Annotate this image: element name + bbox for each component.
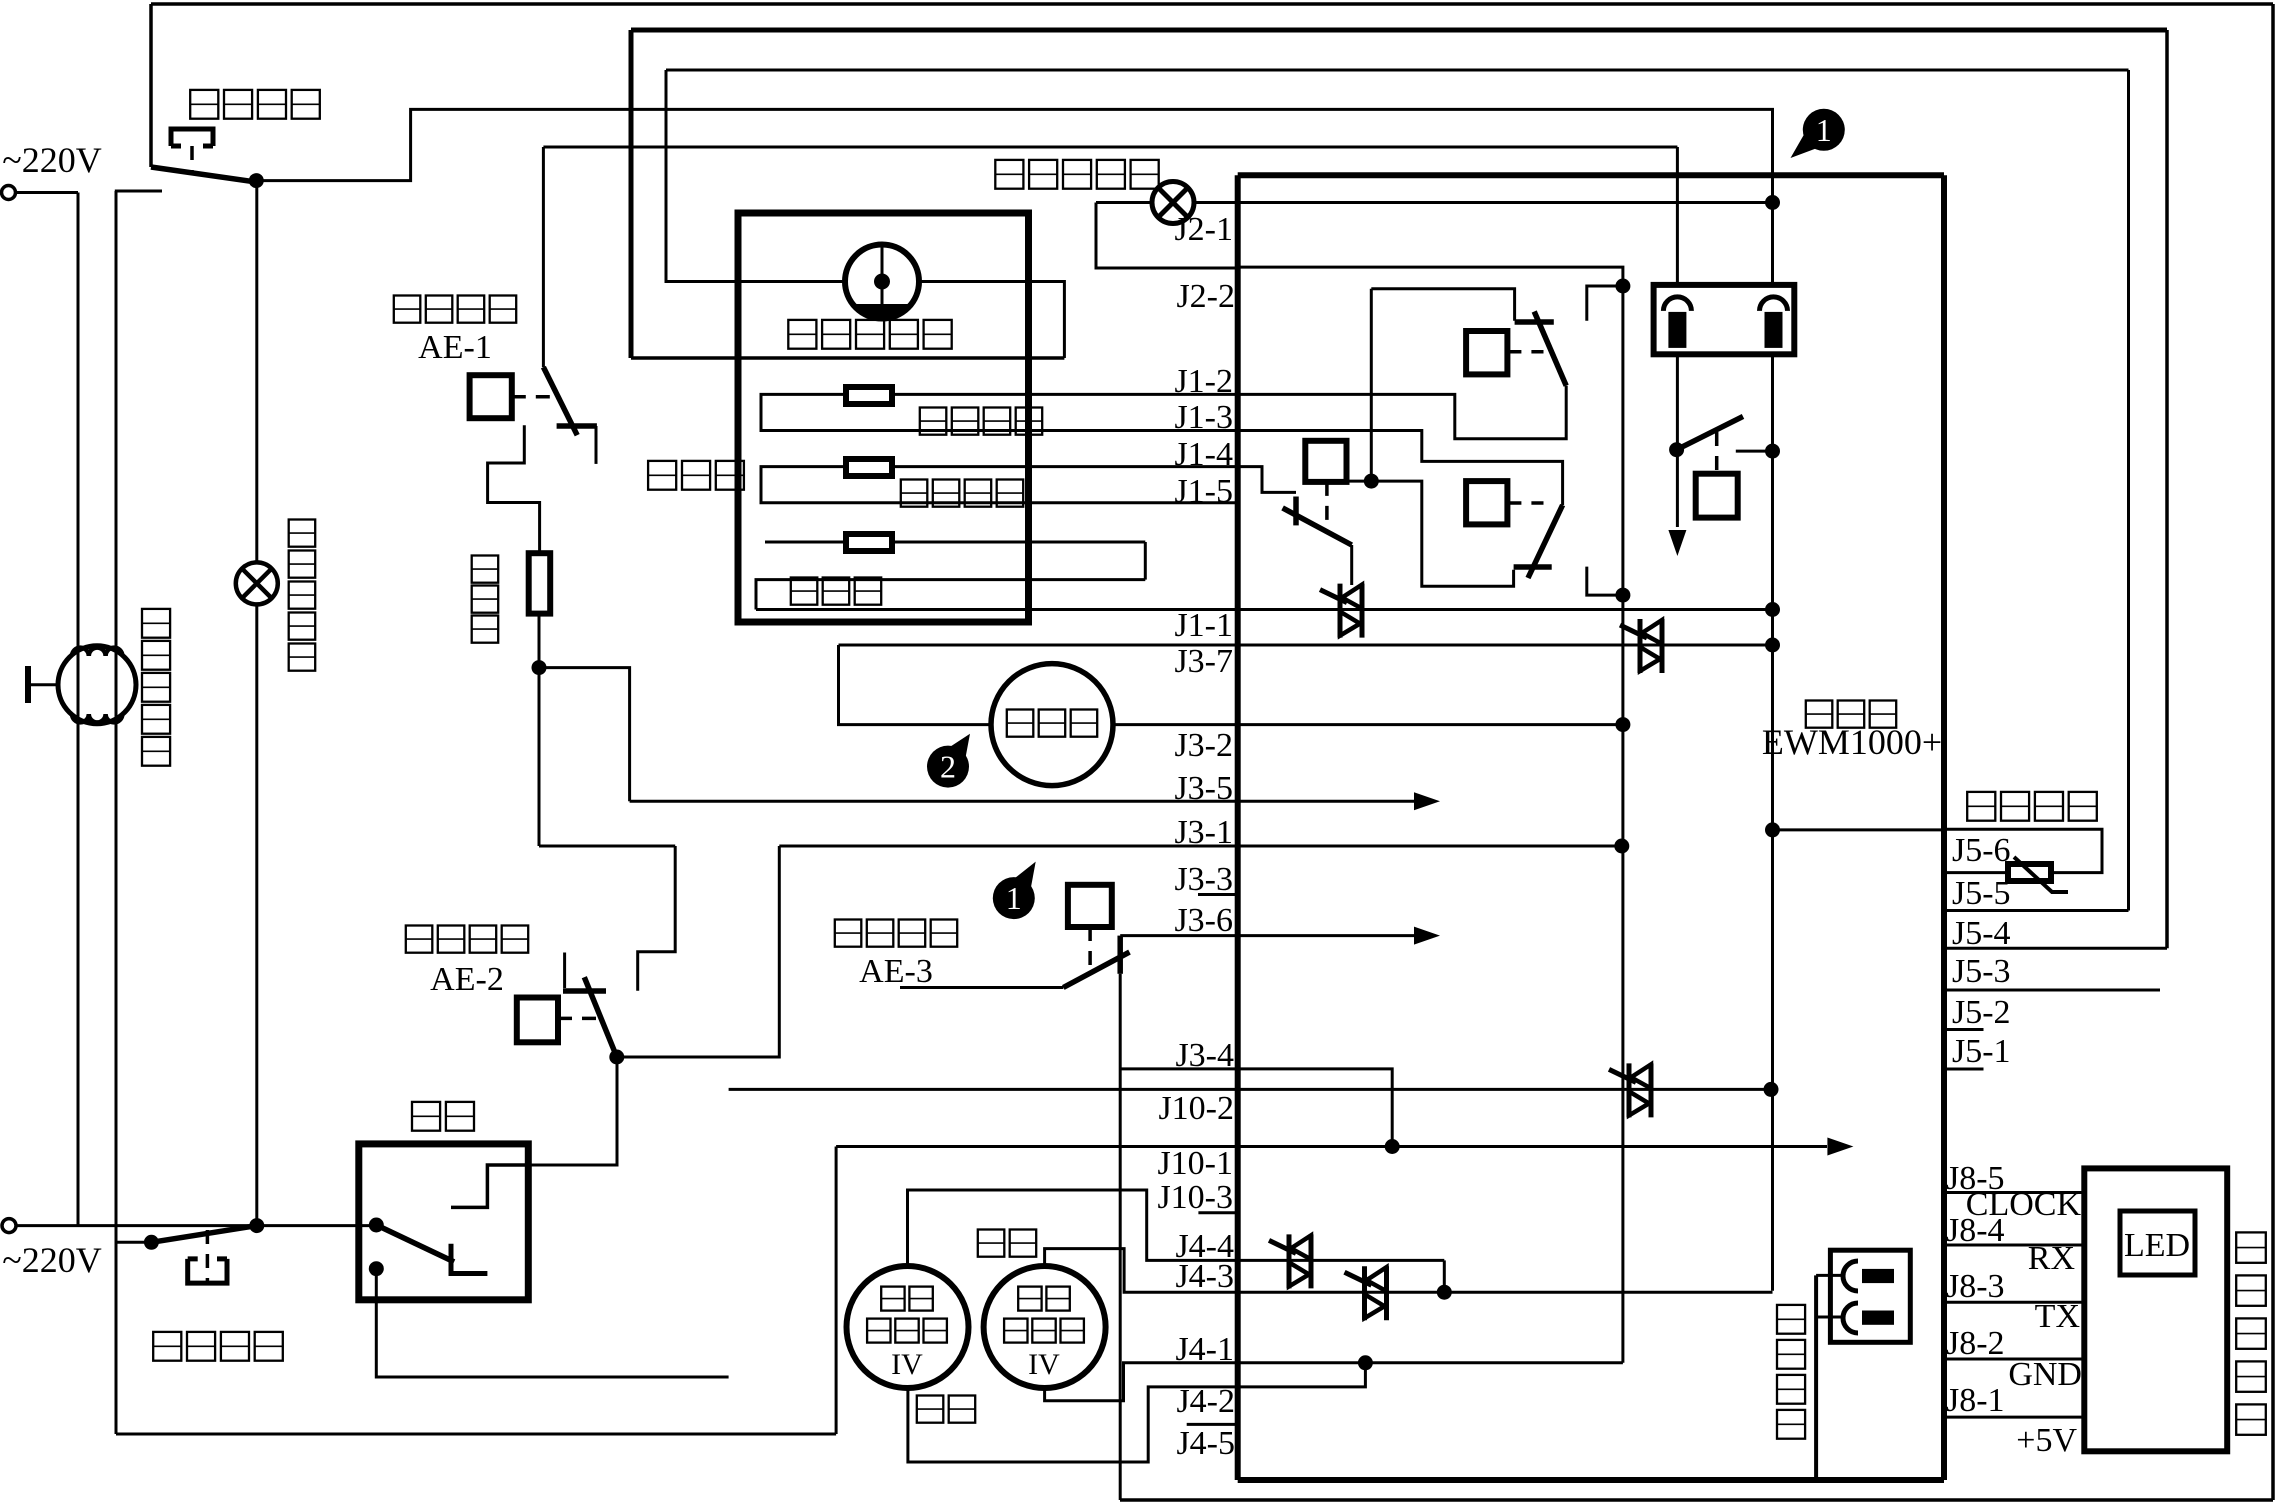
motor box 电动机 <box>738 213 1029 622</box>
svg-text:J8-2: J8-2 <box>1946 1325 2005 1362</box>
svg-text:AE-2: AE-2 <box>430 961 504 998</box>
door lock contact L <box>451 1244 487 1274</box>
label 定子绕组 <box>901 480 928 507</box>
wire J3-7 line <box>839 644 1773 647</box>
transformer right winding <box>1760 297 1788 311</box>
wire third row to thermal protector <box>1144 542 1147 580</box>
wire second top rail <box>543 146 1677 149</box>
wire main valve top to J4-4 <box>908 1190 1445 1266</box>
svg-text:J10-1: J10-1 <box>1157 1145 1233 1182</box>
wire left winding output with arrow <box>1676 354 1679 527</box>
svg-text:AE-3: AE-3 <box>859 953 933 990</box>
wire transformer bus x=1773 vertical <box>1771 354 1774 1290</box>
svg-text:IV: IV <box>1028 1348 1060 1381</box>
power filter ground lead <box>28 683 58 686</box>
memory coil 1 bar <box>1862 1269 1894 1283</box>
main control board top edge <box>1238 172 1944 178</box>
junction dot lamp bus to N wire <box>249 1218 264 1233</box>
wire J3-7 down to pump <box>839 645 992 725</box>
svg-text:J1-2: J1-2 <box>1174 363 1233 400</box>
wire J10-1 riser from bottom rail <box>835 1147 838 1435</box>
wire J2-2 inside board <box>1238 267 1623 286</box>
svg-text:J8-1: J8-1 <box>1946 1382 2005 1419</box>
wire outer border left segment to power switch <box>149 4 153 167</box>
memory coil 1 arc <box>1843 1261 1858 1291</box>
relay K1 coil square <box>1466 331 1507 374</box>
label 操作电脑板 vertical <box>2236 1232 2266 1262</box>
wire J1-3 to K2 arm <box>1238 431 1563 506</box>
wire J10-2 line <box>729 1088 1771 1091</box>
wire door lock to AE-2 pivot <box>528 1057 617 1165</box>
water level switch AE-2 crossbar contact <box>563 988 606 994</box>
svg-text:J4-1: J4-1 <box>1175 1331 1234 1368</box>
memory coil 2 arc <box>1843 1303 1858 1333</box>
relay K2 crossbar contact <box>1514 564 1552 570</box>
svg-text:J10-3: J10-3 <box>1157 1179 1233 1216</box>
water level switch AE-2 arm <box>584 977 617 1057</box>
wire J8 row line y=1359 <box>1944 1358 2084 1361</box>
water level switch AE-3 coil square <box>1068 885 1112 927</box>
node A junction dot after power switch <box>249 173 264 188</box>
wire thick box right edge to J5-4 <box>2165 30 2169 948</box>
relay K4 arm <box>1677 416 1743 449</box>
water level switch AE-2 pivot dot <box>609 1050 624 1065</box>
label 电源滤波器 vertical <box>142 609 170 638</box>
svg-text:J3-3: J3-3 <box>1174 861 1233 898</box>
relay K2 dashed link <box>1507 501 1543 505</box>
label 加热器 vertical <box>472 556 499 583</box>
stub J4-5 <box>1187 1423 1238 1426</box>
triac V3 on J10-2 <box>1627 1063 1632 1117</box>
water level switch AE-2 NO contact from heater <box>638 846 676 991</box>
water level switch AE-2 coil square <box>517 998 558 1043</box>
power switch S1b link to bus <box>116 1241 151 1244</box>
label 主洗 <box>917 1396 944 1423</box>
relay K1 crossbar contact <box>1515 319 1554 325</box>
junction dot stub at internal bus <box>1615 588 1630 603</box>
power switch S1 moving arm <box>151 167 256 182</box>
wire J5-6 loop with thermistor <box>1944 829 2102 872</box>
power switch S1 label 电源开关 <box>190 90 218 119</box>
svg-text:J1-1: J1-1 <box>1174 607 1233 644</box>
wire tach left lead to top rail <box>666 70 845 282</box>
wire heater bottom <box>538 614 541 846</box>
wire indicator branch vertical x=257 <box>255 181 258 562</box>
triac V1 on J1-1 <box>1338 584 1343 638</box>
door lock internal wire staircase <box>451 1165 528 1207</box>
junction dot J3-7 at transformer bus <box>1765 638 1780 653</box>
inlet valve main wash circle 进水电磁阀IV <box>847 1266 969 1388</box>
wire J8 row line y=1417.1 <box>1944 1416 2084 1419</box>
label 门锁指示灯 <box>995 160 1023 189</box>
svg-text:J2-2: J2-2 <box>1176 278 1235 315</box>
label 转子绕组 <box>920 408 947 435</box>
wire outer border top <box>151 2 2273 6</box>
svg-text:J5-3: J5-3 <box>1952 953 2011 990</box>
junction dot bus to J5-6 <box>1765 822 1780 837</box>
power indicator lamp HL1 电源指示灯 <box>236 562 278 604</box>
wire J5-3 line <box>1944 989 2160 992</box>
relay K4 contact link <box>1736 450 1773 453</box>
power switch S1b arm <box>151 1226 256 1243</box>
stator winding row J1-4/J1-5 hairpin <box>761 467 1238 503</box>
label 感温探头 <box>1967 792 1995 821</box>
svg-text:RX: RX <box>2028 1240 2075 1277</box>
wire thick box top edge <box>631 28 2167 33</box>
relay K3 arm <box>1283 508 1352 545</box>
label 转速发生器 <box>788 320 816 349</box>
svg-text:+5V: +5V <box>2016 1422 2077 1459</box>
svg-text:TX: TX <box>2035 1298 2080 1335</box>
wire prewash valve bottom to J4-1 <box>1045 1363 1623 1401</box>
svg-text:LED: LED <box>2124 1227 2190 1264</box>
LED box <box>2120 1211 2195 1275</box>
svg-text:AE-1: AE-1 <box>418 329 492 366</box>
water level switch AE-3 arm <box>1063 952 1129 987</box>
svg-text:EWM1000+: EWM1000+ <box>1762 722 1942 762</box>
wire thick box bottom edge <box>631 356 1064 360</box>
svg-text:J5-1: J5-1 <box>1952 1033 2011 1070</box>
svg-text:J4-2: J4-2 <box>1176 1383 1235 1420</box>
power filter FL1 top coil <box>72 648 122 656</box>
relay K3 vertical crossbar contact <box>1293 497 1299 526</box>
svg-text:J5-4: J5-4 <box>1952 915 2011 952</box>
third winding row line <box>765 541 1145 544</box>
contact stub near internal bus <box>1587 567 1623 596</box>
water level switch AE-1 dashed link <box>512 395 552 399</box>
wire door lock lower terminal to bottom rail <box>376 1269 728 1377</box>
triac V4 on J4-4 <box>1287 1234 1292 1288</box>
relay K3 dashed link <box>1325 482 1329 530</box>
water level switch AE-3 label <box>835 920 862 947</box>
wire from transformer bus to J5-6 <box>1773 828 1945 831</box>
svg-text:J5-5: J5-5 <box>1952 875 2011 912</box>
junction dot J1-1 at transformer bus <box>1765 602 1780 617</box>
svg-text:J8-4: J8-4 <box>1946 1212 2005 1249</box>
wire main valve bottom to J4-2 <box>908 1363 1366 1462</box>
thermistor RT1 <box>2008 864 2051 881</box>
heater EH1 rect 加热器 <box>529 553 551 613</box>
svg-text:1: 1 <box>1006 880 1022 916</box>
water level switch AE-1 arm <box>543 367 577 435</box>
stator winding resistor R2 <box>846 459 892 476</box>
main control board left edge <box>1235 175 1241 1480</box>
svg-text:J3-1: J3-1 <box>1174 814 1233 851</box>
power switch S1b actuator bracket <box>188 1259 227 1283</box>
junction dot J3-1 at internal bus <box>1614 839 1629 854</box>
rotor winding resistor R1 <box>846 387 892 404</box>
wire J8 row line y=1245 <box>1944 1244 2084 1247</box>
svg-text:2: 2 <box>940 749 956 785</box>
wire AE-3 contact down to bottom border <box>1119 974 1122 1500</box>
door lock indicator lamp HL2 <box>1152 182 1194 224</box>
relay K3 coil square <box>1305 441 1346 482</box>
ground bar <box>25 666 31 703</box>
water level switch AE-1 label <box>394 296 421 323</box>
wire right winding feeder <box>1771 203 1774 286</box>
junction dot J10-2 at transformer bus <box>1764 1082 1779 1097</box>
wire L input to left bus <box>15 191 78 194</box>
wire J3-5 line with arrow <box>630 800 1414 803</box>
wire outer border right <box>2271 4 2275 1500</box>
transformer left winding <box>1663 297 1691 311</box>
wire J3-1 line from AE-2 common to board <box>779 845 1622 848</box>
label 电源开关 bottom <box>153 1332 181 1361</box>
svg-text:J1-4: J1-4 <box>1174 436 1233 473</box>
svg-text:J2-1: J2-1 <box>1174 211 1233 248</box>
junction dot J3-2 at internal bus <box>1615 717 1630 732</box>
power switch S1 dashed link <box>190 146 194 174</box>
wire memory coil 2 lead <box>1816 1316 1843 1319</box>
water level switch AE-3 crossbar contact <box>1117 936 1123 974</box>
power filter FL1 circle 电源滤波器 <box>58 646 136 724</box>
relay K1 dashed link <box>1507 350 1543 354</box>
stub J3-3 <box>1198 893 1238 896</box>
stub J5-1 <box>1944 1068 1984 1071</box>
svg-text:J3-5: J3-5 <box>1174 770 1233 807</box>
callout balloon 2 <box>927 746 969 788</box>
wire J5-4 line <box>1944 947 2167 950</box>
memory coil 2 bar <box>1862 1311 1894 1325</box>
relay K2 coil square <box>1466 481 1507 524</box>
wire outer border bottom <box>1120 1498 2273 1502</box>
wire J1-1 line <box>756 608 1773 611</box>
junction dot J4-1/J4-2 <box>1358 1355 1373 1370</box>
wire J10-1 line with arrow <box>836 1145 1827 1148</box>
wire memory coil 1 lead <box>1816 1274 1843 1277</box>
wire J3-6 line with arrow <box>1120 934 1414 937</box>
svg-text:1: 1 <box>1816 112 1832 148</box>
wire J2-1 lamp line <box>1096 201 1152 204</box>
power-fail memory connector box 断电记忆 <box>1830 1250 1910 1342</box>
door lock switch arm <box>376 1225 454 1262</box>
wire left winding feeder <box>1676 147 1679 285</box>
wire from power switch to control-board transformer (top rail) <box>256 109 1772 202</box>
water level switch AE-1 contact stub right <box>595 426 598 464</box>
callout balloon 1 middle <box>993 877 1035 919</box>
power switch S1b pivot dot <box>144 1235 159 1250</box>
wire J3-4 line <box>1120 1069 1392 1147</box>
terminal ~220V bottom <box>2 1219 16 1233</box>
wire J1-4 to K3 contact <box>1238 467 1296 493</box>
label 电动机 <box>648 461 676 490</box>
svg-text:J3-7: J3-7 <box>1174 643 1233 680</box>
tach generator filled bottom segment <box>853 304 912 319</box>
relay K1 arm <box>1534 312 1566 386</box>
svg-text:J1-5: J1-5 <box>1174 473 1233 510</box>
wire heater branch to AE-2 NO contact (J3-1 spur) <box>539 845 675 848</box>
wire K1 pivot to J1-2 <box>1238 386 1567 439</box>
junction dot J3-4 at J10-1 <box>1385 1139 1400 1154</box>
power switch S1b dashed link <box>206 1230 210 1283</box>
wire left bus vertical x=78 <box>77 193 80 1226</box>
label 电源指示灯 vertical <box>289 520 316 547</box>
wire tach right lead loop <box>919 282 1064 359</box>
wire J8 row line y=1302.3 <box>1944 1301 2084 1304</box>
junction dot relay feed <box>1364 474 1379 489</box>
relay K4 coil square <box>1696 474 1738 518</box>
drain pump M2 circle 排水泵 <box>991 664 1113 786</box>
callout balloon 1 top right <box>1803 109 1845 151</box>
water level switch AE-1 coil square <box>470 375 512 418</box>
svg-text:J3-2: J3-2 <box>1174 727 1233 764</box>
wire prewash valve top to J4-3 <box>1045 1249 1773 1293</box>
junction dot J4-4/J4-3 <box>1437 1285 1452 1300</box>
rotor winding row J1-2/J1-3 hairpin <box>761 394 1238 430</box>
triac V2 on J3-7 <box>1638 619 1643 673</box>
wire heater to J3-5 arrow line <box>539 668 630 802</box>
door lock terminal dot upper <box>369 1218 384 1233</box>
wire J5-5 line <box>1944 909 2129 912</box>
power switch S1 actuator bracket <box>171 129 213 146</box>
triac V5 on J4-3 <box>1362 1266 1367 1320</box>
relay K2 arm <box>1528 505 1563 578</box>
junction dot on transformer bus <box>1765 444 1780 459</box>
svg-text:GND: GND <box>2008 1356 2082 1393</box>
water level switch AE-2 dashed link <box>558 1017 597 1021</box>
wire K2 contact to relay feed dot <box>1371 481 1513 586</box>
wire J3-2 line from pump to board <box>1113 723 1623 726</box>
svg-text:J5-2: J5-2 <box>1952 994 2011 1031</box>
wire K3 pivot to triac V1 gate <box>1350 545 1353 585</box>
label 预洗 <box>978 1230 1005 1257</box>
svg-text:J1-3: J1-3 <box>1174 399 1233 436</box>
svg-text:J3-6: J3-6 <box>1174 902 1233 939</box>
wire bottom rail from power switch to J10-1 riser <box>116 1433 836 1436</box>
wire J8 row line y=1192.5 <box>1944 1191 2084 1194</box>
label 热保护 <box>791 578 818 605</box>
stub J10-3 <box>1198 1211 1237 1214</box>
stub J5-2 <box>1944 1028 1984 1031</box>
wire relay K3 coil to feed dot <box>1347 480 1372 483</box>
svg-text:J8-3: J8-3 <box>1946 1268 2005 1305</box>
door lock box 门锁 <box>359 1144 529 1300</box>
third winding resistor R3 <box>846 534 892 551</box>
relay K4 dashed link <box>1715 432 1719 474</box>
inlet valve prewash circle 进水电磁阀IV <box>984 1266 1106 1388</box>
wire memory vertical to bottom <box>1814 1275 1818 1480</box>
wire second bus vertical x=116 <box>115 191 118 1434</box>
wire internal bus x=1622 vertical <box>1621 286 1624 1363</box>
svg-text:J4-5: J4-5 <box>1176 1425 1235 1462</box>
wire J4-4 drop to J4-3 <box>1443 1260 1446 1292</box>
terminal ~220V top <box>2 186 16 200</box>
wire thick box left edge <box>629 30 634 358</box>
main control board right edge <box>1941 175 1947 1480</box>
door lock terminal dot lower <box>369 1261 384 1276</box>
operation board box 操作电脑板 <box>2084 1168 2227 1451</box>
junction dot heater to J3-5 branch <box>532 660 547 675</box>
junction dot J2-1/power rail <box>1765 195 1780 210</box>
contact stub near J2-2 dot <box>1587 286 1623 321</box>
water level switch AE-1 contact stub left to heater <box>488 425 540 553</box>
power switch S1 fixed contact stub <box>115 190 162 193</box>
transformer box <box>1654 285 1795 354</box>
wire J2-1 to J2-2 U-turn <box>1096 203 1238 269</box>
water level switch AE-2 contact stub up <box>563 953 566 989</box>
tach generator circle 转速发生器 <box>845 245 919 319</box>
tach generator axis line <box>881 246 884 317</box>
label 主控板 <box>1806 701 1833 728</box>
water level switch AE-2 label <box>406 926 433 953</box>
thermal protector hairpin 热保护 <box>756 580 1145 610</box>
power filter FL1 bottom coil <box>72 714 122 722</box>
tach generator center dot <box>874 274 890 290</box>
wire top rail branch to AE-1 <box>542 147 545 367</box>
svg-text:~220V: ~220V <box>2 1240 101 1280</box>
wire N input to door lock <box>16 1224 376 1227</box>
main control board bottom edge <box>1238 1477 1944 1483</box>
svg-text:~220V: ~220V <box>2 140 101 180</box>
wire J2-2 branch to K1 fixed contact <box>1371 289 1514 321</box>
wire vertical from J2-2 branch to dot <box>1370 289 1373 481</box>
wire AE-2 pivot to J3-1 line <box>617 846 780 1057</box>
wire AE-3 pivot feed <box>900 986 1063 989</box>
wire inner loop top edge <box>666 69 2129 72</box>
svg-text:J5-6: J5-6 <box>1952 832 2011 869</box>
label 断电记忆 vertical <box>1777 1305 1805 1334</box>
svg-text:J4-3: J4-3 <box>1175 1258 1234 1295</box>
junction dot J2-2 bus top <box>1615 279 1630 294</box>
wire inner loop right edge to J5-5 <box>2127 70 2130 911</box>
svg-text:J10-2: J10-2 <box>1158 1090 1234 1127</box>
water level switch AE-3 dashed link <box>1088 927 1092 966</box>
svg-text:J3-4: J3-4 <box>1175 1037 1234 1074</box>
water level switch AE-1 crossbar contact <box>557 423 597 429</box>
svg-text:IV: IV <box>891 1348 923 1381</box>
relay K4 pivot dot <box>1669 442 1684 457</box>
